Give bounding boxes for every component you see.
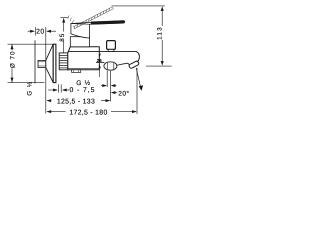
svg-text:85: 85 xyxy=(59,33,66,42)
svg-text:0 - 7,5: 0 - 7,5 xyxy=(69,87,95,94)
svg-text:20°: 20° xyxy=(118,90,129,97)
svg-text:G ½: G ½ xyxy=(26,81,33,96)
svg-text:20: 20 xyxy=(36,29,45,36)
svg-text:26: 26 xyxy=(97,58,102,63)
svg-text:172,5 - 180: 172,5 - 180 xyxy=(69,110,107,117)
svg-text:113: 113 xyxy=(157,26,164,40)
svg-text:Ø 70: Ø 70 xyxy=(10,50,17,68)
svg-text:125,5 - 133: 125,5 - 133 xyxy=(57,98,95,105)
